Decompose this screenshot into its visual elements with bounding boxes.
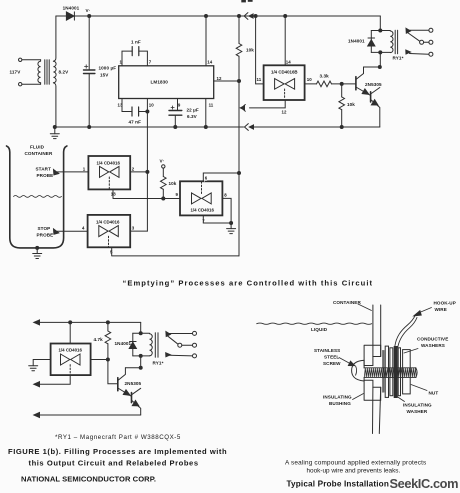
svg-text:CONTAINER: CONTAINER — [25, 151, 53, 156]
wire U3 right to node — [91, 358, 110, 361]
svg-text:11: 11 — [257, 77, 262, 82]
resistor R2 3.3k — [305, 74, 342, 87]
svg-text:117V: 117V — [10, 70, 22, 75]
svg-text:START: START — [36, 167, 52, 172]
svg-text:V·: V· — [86, 8, 91, 13]
svg-text:1/4 CD4016: 1/4 CD4016 — [97, 161, 121, 166]
svg-text:BUSHING: BUSHING — [329, 401, 351, 406]
diode D1 1N4001 — [56, 6, 89, 21]
117V input terminals — [10, 58, 41, 86]
svg-text:47 nF: 47 nF — [129, 120, 142, 125]
wire node to Q3 base — [108, 360, 118, 384]
label CONDUCTIVE WASHERS with leader — [404, 337, 448, 354]
svg-text:9: 9 — [178, 103, 181, 108]
svg-text:1N4001: 1N4001 — [115, 341, 132, 346]
svg-text:A sealing compound applied ext: A sealing compound applied externally pr… — [285, 460, 426, 467]
svg-text:SeekIC.com: SeekIC.com — [390, 476, 459, 491]
analog switch U2a 1/4 CD4016B — [257, 60, 313, 115]
wire U2c pin 7 to ground — [203, 215, 235, 233]
resistor R1 10k (V+ to pin12 bus) — [236, 15, 254, 82]
wire pin10 down bus — [146, 99, 148, 172]
svg-text:2N5305: 2N5305 — [125, 381, 142, 386]
svg-text:1/4 CD4016: 1/4 CD4016 — [96, 220, 120, 225]
analog switch U2c 1/4 CD4016 — [176, 176, 228, 224]
svg-text:6.3V: 6.3V — [187, 114, 198, 119]
svg-text:STOP: STOP — [38, 226, 51, 231]
label INSULATING BUSHING with leader — [323, 394, 364, 407]
svg-text:8: 8 — [224, 193, 227, 198]
svg-text:hook-up wire and prevents leak: hook-up wire and prevents leaks. — [307, 468, 401, 475]
svg-text:INSULATING: INSULATING — [403, 403, 432, 408]
svg-text:FIGURE 1(b). Filling Processes: FIGURE 1(b). Filling Processes are Imple… — [8, 447, 227, 456]
svg-text:11: 11 — [209, 103, 214, 108]
svg-text:10: 10 — [307, 77, 312, 82]
svg-text:this Output Circuit and Relabe: this Output Circuit and Relabeled Probes — [29, 459, 199, 468]
svg-text:Typical Probe Installation: Typical Probe Installation — [287, 480, 389, 489]
wire node to U2c pin 9 — [163, 198, 180, 200]
svg-text:HOOK-UP: HOOK-UP — [434, 301, 456, 306]
svg-text:V·: V· — [160, 159, 165, 164]
svg-text:RY1*: RY1* — [393, 56, 404, 61]
svg-text:9: 9 — [176, 192, 179, 197]
wire U3 top to V+ — [69, 322, 71, 343]
wire U2d pin 3 to bus — [130, 230, 147, 232]
analog switch U2d (stop) 1/4 CD4016 — [82, 215, 135, 255]
svg-text:6: 6 — [205, 176, 208, 181]
label INSULATING WASHER with leader — [397, 397, 432, 415]
svg-text:22 µF: 22 µF — [187, 107, 199, 112]
svg-text:14: 14 — [286, 60, 291, 65]
IC U1 LM1830 — [118, 60, 222, 108]
transistor Q1 Q2 Darlington 2N5305 — [342, 66, 382, 128]
svg-text:FLUID: FLUID — [30, 145, 45, 150]
svg-text:STAINLESS: STAINLESS — [314, 348, 340, 353]
relay RY2 contacts — [166, 331, 197, 358]
resistor R5 4.7k — [94, 322, 111, 359]
wire bus pin10 down to pin3 — [146, 172, 148, 231]
label STAINLESS STEEL SCREW with leader — [314, 348, 355, 366]
label NUT with leader — [411, 385, 438, 396]
inline arrow on ground rail — [245, 124, 254, 131]
svg-text:CONDUCTIVE: CONDUCTIVE — [417, 337, 448, 342]
svg-text:4.7k: 4.7k — [94, 337, 104, 342]
START PROBE label and arrow — [36, 167, 89, 179]
svg-text:12: 12 — [282, 110, 287, 115]
inline arrow on V+ rail — [244, 13, 253, 20]
svg-text:PROBE: PROBE — [37, 233, 54, 238]
node V+ — [86, 8, 91, 18]
svg-text:1/4 CD4016: 1/4 CD4016 — [191, 208, 215, 213]
ground at container bottom — [33, 246, 42, 258]
svg-text:3.3k: 3.3k — [320, 74, 330, 79]
relay RY1 contacts — [406, 28, 433, 56]
ground symbol under transformer — [50, 127, 59, 139]
svg-text:RY1*: RY1* — [153, 361, 164, 366]
svg-text:10k: 10k — [169, 181, 177, 186]
svg-text:3: 3 — [132, 226, 135, 231]
svg-text:CONTAINER: CONTAINER — [333, 300, 361, 305]
relay RY1 coil with diode D2 1N4001 — [348, 29, 404, 67]
svg-text:10k: 10k — [347, 102, 355, 107]
svg-text:1 nF: 1 nF — [131, 40, 141, 45]
wire U2c pin 6 to bus — [203, 172, 240, 182]
svg-text:8.2V: 8.2V — [59, 70, 70, 75]
svg-text:14: 14 — [207, 60, 212, 65]
svg-text:1: 1 — [83, 166, 86, 171]
analog switch U3 1/4 CD4016 — [51, 344, 91, 376]
top edge crop marks — [241, 0, 252, 2]
label HOOK-UP WIRE with leader — [414, 301, 456, 316]
svg-text:PROBE: PROBE — [37, 173, 54, 178]
svg-text:WIRE: WIRE — [435, 307, 447, 312]
capacitor C4 22uF 6.3V (pin 9) — [169, 99, 199, 129]
svg-text:2N5305: 2N5305 — [365, 82, 382, 87]
svg-text:1N4001: 1N4001 — [348, 39, 365, 44]
resistor R3 10k (base to ground) — [339, 84, 355, 129]
ground rail fig1b with arrow — [34, 413, 141, 418]
conductive washers — [385, 346, 400, 397]
wire bus pin12 down — [238, 81, 240, 256]
svg-text:10: 10 — [149, 103, 154, 108]
stainless steel screw head — [352, 360, 365, 381]
STOP PROBE label and arrow — [37, 226, 88, 238]
svg-text:1/4 CD4016: 1/4 CD4016 — [59, 348, 83, 353]
svg-text:15V: 15V — [100, 73, 109, 78]
svg-text:NATIONAL SEMICONDUCTOR CORP.: NATIONAL SEMICONDUCTOR CORP. — [21, 475, 156, 484]
svg-text:WASHER: WASHER — [407, 409, 428, 414]
wire U2d pin 5 loop to bus — [112, 247, 239, 256]
svg-text:INSULATING: INSULATING — [323, 395, 352, 400]
svg-text:2: 2 — [132, 166, 135, 171]
svg-text:1000 µF: 1000 µF — [99, 66, 117, 71]
capacitor C1 1000uF 15V — [84, 16, 117, 127]
V+ pullup with resistor R4 10k — [160, 159, 177, 201]
wire U3 control with arrow — [34, 375, 70, 387]
threaded shaft — [364, 368, 417, 378]
wire pin 11 to ground rail — [204, 99, 207, 129]
fluid container — [7, 145, 67, 248]
wire U3 left to ground — [29, 360, 51, 371]
wire U2a pin 11 to V+ — [254, 15, 264, 84]
svg-text:12: 12 — [217, 76, 222, 81]
transistor Q3 Q4 Darlington 2N5305 — [118, 366, 142, 415]
svg-text:STEEL: STEEL — [324, 355, 339, 360]
node base junction — [340, 82, 343, 85]
analog switch U2b (start) 1/4 CD4016 — [83, 156, 135, 197]
capacitor C3 47nF (pins 13-10) — [122, 99, 149, 125]
wire U2a pin 12 control to bus with arrow — [240, 100, 285, 111]
transformer T1 — [38, 16, 69, 127]
container wall — [373, 305, 381, 434]
insulating bushing flanges — [364, 345, 381, 400]
svg-text:7: 7 — [149, 60, 152, 65]
svg-text:1/4 CD4016B: 1/4 CD4016B — [271, 70, 298, 75]
svg-text:WASHERS: WASHERS — [421, 343, 445, 348]
wire pin 12 to bus — [214, 80, 241, 83]
wire V+ rail — [89, 15, 380, 17]
svg-text:10k: 10k — [246, 48, 254, 53]
wire U2b pin2 to bus — [130, 170, 149, 173]
svg-text:1N4001: 1N4001 — [63, 6, 80, 11]
svg-text:SCREW: SCREW — [323, 361, 341, 366]
wire U2c pin 8 — [222, 198, 231, 223]
wire U2a pin 14 to V+ — [284, 15, 287, 66]
ground rail bottom of fig 1a — [53, 126, 380, 129]
label CONTAINER with leader — [333, 300, 372, 311]
svg-text:13: 13 — [111, 192, 116, 197]
svg-text:LM1830: LM1830 — [151, 80, 169, 85]
liquid wavy line — [257, 323, 372, 324]
svg-text:4: 4 — [82, 226, 85, 231]
svg-text:“Emptying” Processes are Contr: “Emptying” Processes are Controlled with… — [123, 279, 374, 288]
nut — [403, 350, 411, 394]
water level line — [14, 196, 62, 198]
svg-text:NUT: NUT — [429, 391, 439, 396]
hook-up wire — [395, 315, 417, 347]
svg-text:LIQUID: LIQUID — [311, 327, 328, 332]
wire U2b pin13 to 10k node — [113, 189, 163, 198]
wire pin 14 to V+ rail — [205, 15, 208, 66]
insulating bushing sleeve end — [383, 350, 384, 392]
relay RY2 coil with diode D3 — [129, 322, 163, 367]
V+ rail fig1b with arrow — [34, 320, 141, 325]
svg-text:*RY1 – Magnecraft Part # W388C: *RY1 – Magnecraft Part # W388CQX-5 — [55, 434, 181, 441]
capacitor C2 1nF (pins 1-7) — [122, 40, 147, 66]
wire relay drop — [379, 16, 381, 31]
